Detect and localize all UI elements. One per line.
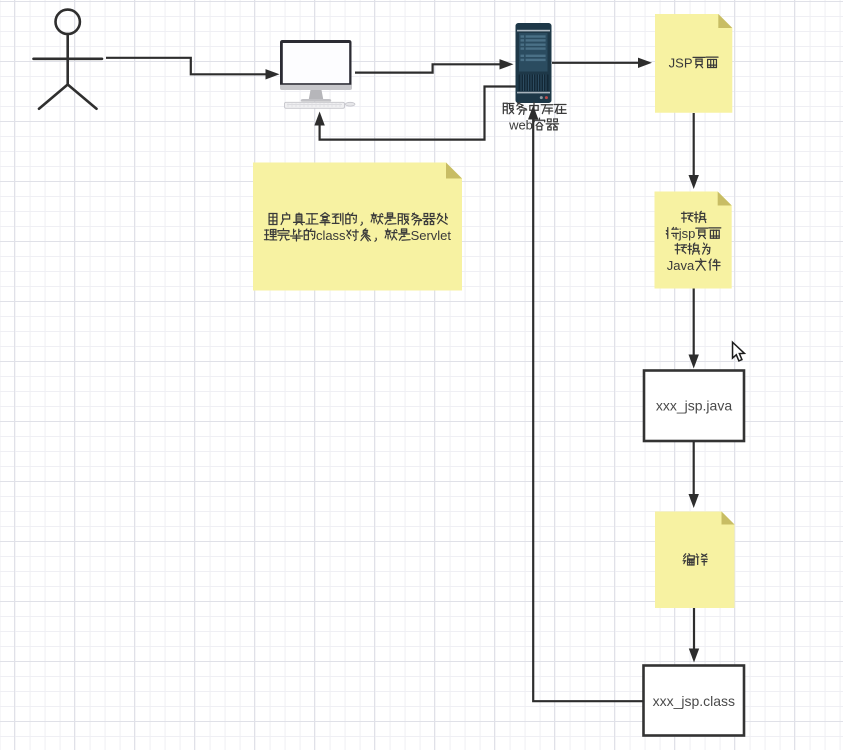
big note: 用户真正拿到的，就是服务器处理完毕的class对象，就是Servlet bbox=[253, 163, 462, 291]
wire monitor to server bbox=[355, 59, 514, 73]
actor (stick figure user) bbox=[34, 10, 103, 109]
svg-text:jsp: jsp bbox=[678, 226, 696, 241]
box: xxx_jsp.java bbox=[644, 371, 744, 442]
wire server response to monitor bbox=[314, 87, 515, 140]
svg-text:class: class bbox=[316, 228, 346, 243]
wire 编译 note to xxx_jsp.class box bbox=[689, 608, 699, 663]
svg-text:JSP: JSP bbox=[669, 55, 693, 70]
wire java box to 编译 note bbox=[689, 442, 699, 509]
note: 转换/将jsp页面/转换为/Java文件 bbox=[655, 192, 732, 289]
wire xxx_jsp.class back to server (feedback) bbox=[528, 106, 644, 702]
svg-text:Java: Java bbox=[667, 258, 695, 273]
server tower (web container host) bbox=[516, 23, 552, 103]
box: xxx_jsp.class bbox=[644, 666, 745, 736]
svg-text:xxx_jsp.class: xxx_jsp.class bbox=[653, 693, 735, 709]
wire actor to monitor bbox=[106, 58, 280, 80]
note: 编译 bbox=[655, 512, 735, 609]
wire JSP note to 转换 note bbox=[689, 113, 699, 189]
wire 转换 note to xxx_jsp.java box bbox=[689, 289, 699, 369]
wire server to JSP note bbox=[552, 58, 652, 68]
monitor (client computer) bbox=[280, 40, 355, 108]
svg-text:xxx_jsp.java: xxx_jsp.java bbox=[656, 398, 732, 414]
note: JSP页面 bbox=[655, 14, 732, 113]
label: 服务中存在 web容器 (server label) bbox=[503, 102, 566, 132]
svg-text:Servlet: Servlet bbox=[411, 228, 452, 243]
mouse cursor bbox=[733, 342, 745, 361]
svg-text:web: web bbox=[508, 117, 533, 132]
